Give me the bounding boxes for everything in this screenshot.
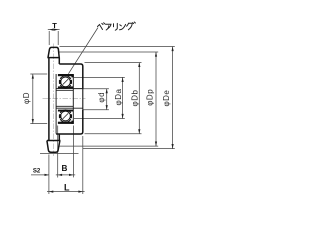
ball bearing top section [58, 74, 74, 88]
extension lines right side [40, 47, 175, 154]
inner ring top band [58, 86, 73, 88]
boss top and right fillet [59, 64, 83, 89]
n [120, 25, 122, 26]
dimension s2 [31, 167, 49, 176]
ext line Dp top [59, 51, 159, 53]
ext line Da bottom [74, 118, 125, 120]
a [106, 24, 112, 28]
gu [127, 23, 133, 30]
ext line d bottom [83, 109, 109, 111]
dimension phi Dp [146, 52, 157, 146]
ext line De bottom [83, 148, 175, 150]
outer race bottom [60, 119, 71, 122]
top tooth [48, 47, 59, 57]
svg-text:φDe: φDe [162, 90, 171, 107]
bearing label katakana "bearing" drawn as strokes [98, 22, 136, 30]
sleeve bore bottom [56, 105, 73, 107]
outer race top [60, 76, 71, 79]
counterbore left wall face [55, 74, 57, 134]
svg-text:T: T [52, 21, 57, 30]
plate left face [48, 58, 50, 141]
svg-text:B: B [62, 164, 68, 173]
sleeve bore top [56, 90, 73, 92]
boss right face middle [82, 89, 84, 110]
boss right face bottom part [56, 110, 83, 134]
outer ring bottom band [58, 122, 73, 124]
seal left top [59, 80, 61, 84]
outer ring top band [58, 74, 73, 76]
baseline under bottom tooth [40, 153, 79, 155]
ball bearing bottom section [58, 110, 74, 124]
dimension phi d [97, 89, 108, 110]
ext line Dp bottom [60, 145, 159, 147]
ext line Db bottom [85, 133, 142, 135]
svg-text:φDb: φDb [130, 89, 139, 106]
seal right top [70, 80, 72, 84]
sleeve seam bottom [56, 107, 83, 109]
ext line d top [83, 88, 109, 90]
svg-text:φd: φd [97, 92, 106, 103]
sprocket body [47, 47, 83, 152]
svg-text:φD: φD [22, 92, 31, 104]
dimension L [47, 182, 85, 192]
ri [114, 23, 118, 30]
svg-text:L: L [64, 182, 70, 192]
bearing right face [72, 74, 74, 124]
dimension B [56, 164, 75, 176]
dimension phi De [162, 47, 174, 149]
snap ring square bottom right [71, 121, 73, 124]
sleeve seam top [56, 88, 83, 90]
bottom extension verticals [49, 126, 83, 195]
dimension phi Da [114, 77, 124, 118]
svg-text:φDp: φDp [146, 89, 155, 106]
svg-text:S2: S2 [33, 167, 41, 174]
ext line De top [60, 46, 175, 48]
ball bottom [61, 111, 71, 121]
ext line Da top [74, 76, 125, 78]
plate right face top [58, 58, 60, 64]
bottom rim line [47, 140, 60, 142]
be [98, 25, 103, 30]
horizontal centerline [43, 98, 86, 100]
vertical centerline [53, 44, 55, 157]
inner race top [60, 85, 71, 88]
dimension phiD left [22, 74, 47, 124]
top rim line [47, 57, 59, 59]
bottom tooth [47, 141, 60, 153]
plate right face bottom [58, 134, 60, 141]
dimension T [48, 21, 60, 45]
snap ring square top right [71, 74, 73, 77]
inner bores [56, 74, 83, 134]
inner ring bottom band [58, 110, 73, 112]
svg-text:φDa: φDa [114, 88, 123, 105]
seal left bottom [59, 114, 61, 118]
ball top [61, 77, 71, 87]
bearing leader line [68, 28, 98, 74]
seal right bottom [70, 114, 72, 118]
inner race bottom [60, 110, 71, 113]
ext line Db top [85, 62, 142, 64]
dimension phi Db [130, 62, 140, 133]
